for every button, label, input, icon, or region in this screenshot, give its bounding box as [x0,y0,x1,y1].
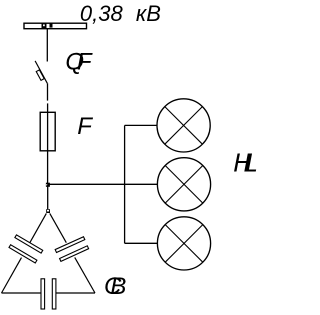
svg-text:0,38 кВ: 0,38 кВ [80,1,161,26]
capacitor C2 plate a [55,237,85,253]
apex node of capacitor delta [46,209,50,213]
wire delta bottom left [2,292,41,294]
wire node to lamps (horizontal) [48,183,158,185]
node junction dot [46,183,50,187]
svg-text:F: F [77,113,93,140]
capacitor C1 plate b [9,245,37,263]
wire lamp bus vertical [124,125,126,243]
wire busbar to QF [46,29,48,62]
wire delta left side lower [2,258,22,293]
wire delta bottom right [56,292,95,294]
capacitor C3 plate a [41,279,45,309]
wire delta left side upper [30,213,47,242]
capacitor C1 plate a [15,235,43,253]
capacitor C2 plate b [60,246,89,262]
circuit breaker QF [35,61,47,83]
wire node to capacitor bank apex [47,184,49,209]
capacitor C3 plate b [52,279,56,309]
wire stub to lamp HL1 [125,124,157,126]
wire stub to lamp HL3 [125,242,158,244]
lamp HL2 [157,158,210,211]
wire QF to fuse (upper segment) [47,83,49,100]
wire QF to fuse (lower segment, passes through fuse to node) [47,103,49,183]
lamp HL3 [157,217,210,270]
wire delta right side lower [75,257,95,293]
fuse F [40,112,55,151]
lamp HL1 [157,99,210,152]
wire delta right side upper [50,213,67,242]
busbar 0,38 kV [24,23,87,29]
